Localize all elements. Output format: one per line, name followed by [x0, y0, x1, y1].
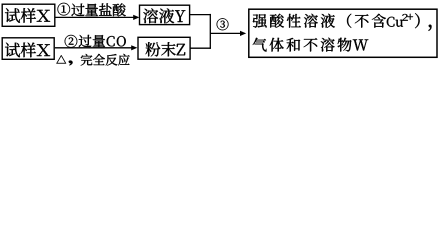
label circled 3 (③): [217, 18, 229, 30]
arrowhead 1: [133, 15, 139, 20]
box sample X top (试样X): [2, 4, 55, 26]
box solution Y (溶液Y): [140, 5, 190, 24]
text line2 气体和不溶物W: [253, 38, 369, 52]
text fullwidth comma: [429, 25, 432, 31]
wire arrow2 shaft: [55, 47, 135, 49]
box final products: [249, 9, 437, 57]
wire arrow3 shaft: [210, 32, 243, 34]
wire from 粉末Z right: [190, 47, 211, 49]
label complete reaction (完全反应): [81, 54, 130, 66]
text fullwidth close paren: [415, 13, 420, 28]
label circled 2 (②): [65, 35, 77, 48]
text Cu: [387, 17, 403, 27]
text superscript 2: [402, 14, 408, 21]
label heating triangle (△): [56, 55, 66, 63]
label excess CO (过量CO): [79, 35, 126, 47]
text line1 强酸性溶液（不含: [253, 14, 386, 28]
arrowhead 2: [131, 45, 137, 50]
box sample X bottom (试样X): [2, 38, 54, 60]
text 粉末Z: [146, 42, 186, 56]
text superscript plus: [407, 14, 413, 20]
text 溶液Y: [143, 8, 185, 23]
wire from 溶液Y right: [190, 14, 211, 16]
wire vertical bus: [209, 14, 211, 49]
label excess hydrochloric acid (过量盐酸): [71, 3, 125, 16]
text 试样X (top box): [5, 8, 50, 23]
label circled 1 (①): [58, 3, 70, 16]
text 试样X (bottom box): [5, 43, 50, 58]
label comma after triangle (，): [69, 60, 73, 65]
box powder Z (粉末Z): [138, 37, 190, 59]
arrowhead 3: [240, 31, 246, 36]
wire arrow1 shaft: [56, 16, 137, 18]
